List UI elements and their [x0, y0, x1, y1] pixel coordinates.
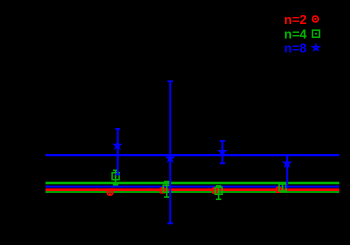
blue point B1 (star) [114, 142, 121, 149]
green error bar 4 [280, 183, 285, 192]
green point G1 [112, 173, 119, 180]
blue error bar 3 [220, 141, 225, 163]
green error bar 2 [164, 182, 169, 198]
svg-text:n=4: n=4 [284, 26, 308, 41]
blue exact line lower [46, 186, 340, 188]
red exact line (n=2) [46, 188, 340, 191]
legend symbol n=4 (square) [313, 30, 320, 37]
red point R3 [212, 188, 217, 193]
red point R2 [160, 188, 165, 193]
red point R4 [276, 187, 281, 192]
green point G3 [215, 187, 222, 194]
green point G2 [163, 185, 170, 192]
svg-text:n=2: n=2 [284, 12, 307, 27]
legend symbol n=8 (star) [312, 44, 319, 50]
blue point B4 (star) [283, 160, 290, 167]
svg-text:n=8: n=8 [284, 41, 307, 56]
legend symbol n=2 (circle) [313, 16, 319, 22]
red point R1 [107, 190, 112, 195]
red error bar 3 [212, 188, 217, 193]
blue error bar 4 [286, 155, 288, 189]
green exact line lower (thin) [46, 191, 340, 193]
blue exact line (n=8) [46, 154, 340, 156]
blue point B2 (star) [167, 155, 174, 162]
blue point B3 (star) [219, 148, 226, 155]
green error bar 1 [113, 170, 118, 185]
red error bar 1 [107, 188, 112, 194]
green error bar 3 [216, 186, 221, 200]
green exact line upper (n=4) [46, 182, 340, 184]
blue error bar 2 [168, 81, 173, 223]
red error bar 2 [160, 188, 165, 193]
red error bar 4 [276, 187, 281, 192]
green point G4 [279, 184, 286, 191]
blue error bar 1 [115, 129, 120, 175]
